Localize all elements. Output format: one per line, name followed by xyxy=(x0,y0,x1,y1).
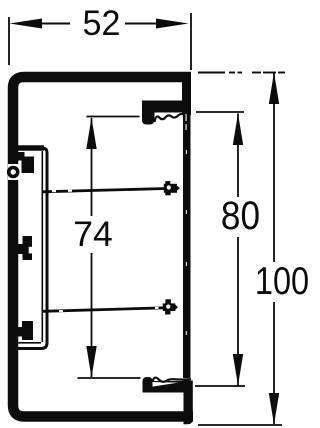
top wall stud square xyxy=(22,157,35,174)
dimension 100: up arrow xyxy=(269,73,279,105)
bottom wall stud stem xyxy=(17,327,23,337)
svg-text:52: 52 xyxy=(83,4,121,43)
middle wall stud head xyxy=(23,236,33,260)
device rail: top arm xyxy=(18,145,44,151)
dimension 52: left extension line xyxy=(8,17,10,65)
bottom-right hook bar xyxy=(143,381,184,393)
bottom-right hook right vertical xyxy=(184,381,193,425)
dimension 74: up arrow xyxy=(86,118,96,150)
svg-text:80: 80 xyxy=(221,193,260,238)
middle wall stud stem xyxy=(17,244,23,254)
dimension 80: bottom extension line xyxy=(195,385,245,387)
dimension 52: right arrow xyxy=(156,19,189,29)
device rail: inner thin edge xyxy=(41,151,43,342)
device rail: foot outer xyxy=(18,343,47,349)
cover bar (right side) xyxy=(183,112,191,378)
top-right wall drop xyxy=(182,72,191,113)
top wall stud knob xyxy=(18,152,25,161)
dimension 100: down arrow xyxy=(269,393,279,425)
bottom wall stud head xyxy=(22,321,33,340)
device rail: foot inner thin xyxy=(18,342,41,344)
dimension 52: line left segment xyxy=(40,23,70,25)
dimension 74: down arrow xyxy=(86,346,96,378)
dimension 100: top extension line (dash-dot) xyxy=(198,72,285,74)
screw boss white pocket xyxy=(8,164,19,180)
dimension 74: bottom tick xyxy=(78,377,141,379)
device rail: outer right edge xyxy=(43,148,47,343)
dimension 80: line upper segment xyxy=(237,114,239,198)
rail pointer arrow 2: head xyxy=(163,299,178,314)
dimension 100: line lower segment xyxy=(273,302,275,424)
top-right hook bar xyxy=(142,101,187,113)
dimension 74: line upper segment xyxy=(91,118,93,216)
top-right wavy seam line xyxy=(155,114,192,122)
bottom-right wavy seam line xyxy=(153,378,192,382)
dimension 52: line right segment xyxy=(125,23,157,25)
screw boss hole xyxy=(11,169,16,174)
dimension 74: top tick xyxy=(87,116,140,118)
cover bar white seam xyxy=(186,114,187,121)
rail pointer arrow 2: shaft xyxy=(43,308,165,312)
rail pointer arrow 1: shaft xyxy=(43,189,166,192)
svg-text:74: 74 xyxy=(73,214,113,254)
dimension 100: bottom extension line xyxy=(198,424,282,426)
dimension 80: down arrow xyxy=(233,354,243,386)
screw boss ring xyxy=(7,166,20,179)
trunking base profile: left wall + top wall + bottom wall xyxy=(13,77,193,417)
svg-text:100: 100 xyxy=(255,258,309,303)
dimension 74: line lower segment xyxy=(91,253,93,377)
middle wall stud notch xyxy=(29,247,32,254)
dimension 52: left arrow xyxy=(10,19,43,29)
dimension 80: line lower segment xyxy=(237,237,239,386)
dimension 52: right extension line xyxy=(190,13,192,70)
dimension 80: up arrow xyxy=(233,114,243,146)
bottom-right hook lip xyxy=(143,377,153,393)
dimension 80: top extension line xyxy=(196,111,244,113)
top-right hook lip xyxy=(142,101,155,125)
dimension 100: line upper segment xyxy=(273,73,275,262)
bottom-right hook bar white wedge xyxy=(153,382,179,387)
rail pointer arrow 1: head xyxy=(164,181,180,195)
shaft scan breaks xyxy=(52,190,159,312)
